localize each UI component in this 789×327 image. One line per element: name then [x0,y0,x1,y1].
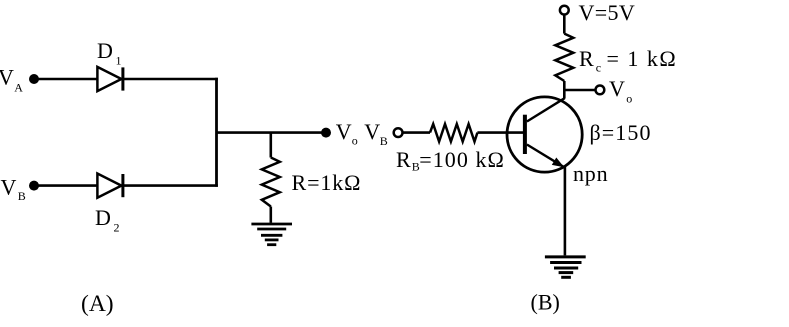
svg-text:=100 kΩ: =100 kΩ [419,147,505,172]
svg-text:D: D [97,38,113,63]
svg-text:V: V [609,76,625,101]
svg-text:R=1kΩ: R=1kΩ [292,170,362,195]
svg-text:(A): (A) [81,291,114,317]
svg-text:o: o [352,134,358,148]
svg-text:B: B [18,189,26,203]
svg-text:1: 1 [116,53,122,67]
svg-text:V: V [1,174,17,199]
svg-text:B: B [380,134,388,148]
svg-text:A: A [14,81,23,95]
svg-text:(B): (B) [531,289,560,314]
svg-text:2: 2 [114,220,120,234]
svg-text:V=5V: V=5V [579,0,636,25]
svg-text:R: R [396,147,411,172]
svg-text:β=150: β=150 [590,120,652,145]
svg-text:= 1 kΩ: = 1 kΩ [607,46,678,71]
svg-text:V: V [0,65,14,90]
svg-text:V: V [336,119,352,144]
svg-text:V: V [364,119,380,144]
svg-text:D: D [95,205,111,230]
svg-text:o: o [626,92,632,106]
svg-text:npn: npn [573,161,608,186]
svg-text:c: c [596,61,601,75]
svg-text:R: R [579,46,594,71]
